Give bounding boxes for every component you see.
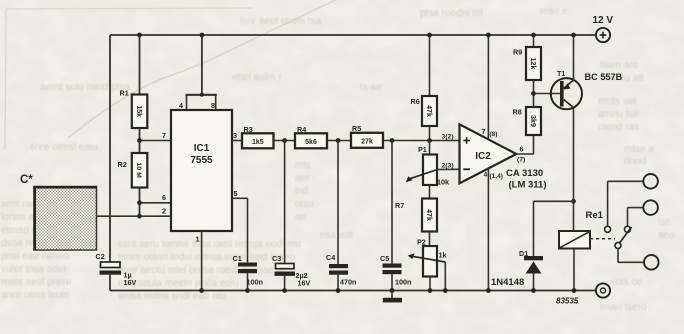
svg-text:10k: 10k <box>437 178 449 187</box>
svg-text:(LM 311): (LM 311) <box>509 180 547 191</box>
svg-text:pmre otasn ledui wrnsa eotm is: pmre otasn ledui wrnsa eotm isnd leatro <box>118 252 296 263</box>
svg-text:aeo: aeo <box>658 230 675 241</box>
faint scan artifacts (decorative) <box>5 0 348 150</box>
resistor R3 <box>242 125 274 148</box>
output terminal bottom <box>644 255 659 270</box>
wire pin 6 <box>137 193 171 205</box>
svg-text:aernt solu meid ptsa: aernt solu meid ptsa <box>40 82 130 93</box>
svg-text:nsa eot: nsa eot <box>320 230 353 241</box>
svg-text:3k9: 3k9 <box>529 115 536 127</box>
svg-text:(1,4): (1,4) <box>490 173 503 180</box>
svg-text:olend ras: olend ras <box>598 122 639 133</box>
wire P1 wiper to - input <box>438 163 460 170</box>
svg-text:Re1: Re1 <box>586 210 604 221</box>
svg-text:100n: 100n <box>395 278 411 287</box>
output terminal middle <box>643 200 658 215</box>
svg-text:anre otms leuin: anre otms leuin <box>1 290 69 301</box>
svg-text:1N4148: 1N4148 <box>491 277 524 288</box>
sensor plate C* <box>20 174 97 250</box>
svg-text:R8: R8 <box>513 108 522 117</box>
ground <box>383 291 402 303</box>
resistor R2 <box>118 141 148 217</box>
output terminal top <box>643 174 658 189</box>
node 0 terminal <box>596 283 610 297</box>
wire node R5 to opamp + input <box>383 138 460 143</box>
wire left branch <box>109 35 111 262</box>
wire bottom rail <box>110 290 596 292</box>
svg-text:7: 7 <box>162 131 166 140</box>
svg-text:R9: R9 <box>513 48 522 57</box>
wire T1 collector down <box>571 108 576 232</box>
svg-text:R7: R7 <box>395 201 404 210</box>
svg-text:R2: R2 <box>118 160 127 169</box>
resistor R6 <box>411 33 438 141</box>
svg-text:ae: ae <box>295 212 307 223</box>
svg-text:5: 5 <box>234 189 238 198</box>
svg-text:16V: 16V <box>124 278 137 287</box>
svg-text:2(3): 2(3) <box>442 163 454 170</box>
svg-text:rnts oe: rnts oe <box>612 277 643 288</box>
svg-text:ssnt aeru lomne etsa oiml retn: ssnt aeru lomne etsa oiml retnsa eodi mu <box>118 239 301 250</box>
svg-text:ernts oel: ernts oel <box>598 96 636 107</box>
svg-text:10 M: 10 M <box>135 163 142 178</box>
resistor R8 <box>513 94 542 136</box>
capacitor C4 <box>326 141 356 293</box>
IC U1 timer IC1 7555 <box>171 110 232 231</box>
svg-text:(8): (8) <box>490 131 498 138</box>
potentiometer P1 <box>406 141 449 199</box>
resistor R4 <box>295 125 327 148</box>
label CA 3130 (LM 311) <box>506 168 547 191</box>
svg-text:vuler tnsa odei: vuler tnsa odei <box>1 264 66 275</box>
capacitor C1 <box>233 254 263 293</box>
svg-text:rnso e: rnso e <box>540 6 568 17</box>
svg-text:C4: C4 <box>326 253 335 262</box>
switch contact A <box>605 181 644 232</box>
svg-text:lmau tsero: lmau tsero <box>600 302 647 313</box>
svg-text:IC1: IC1 <box>194 143 210 154</box>
dashed link relay to switch <box>590 238 615 240</box>
relay Re1 <box>559 210 604 293</box>
svg-text:etsn aolm r: etsn aolm r <box>232 72 282 83</box>
switch pivot and lever <box>615 227 644 262</box>
svg-text:(7): (7) <box>517 157 525 164</box>
svg-text:47k: 47k <box>425 105 432 117</box>
transistor T1 <box>551 69 582 109</box>
svg-text:msnt aeol prети: msnt aeol prети <box>1 277 71 288</box>
svg-text:27k: 27k <box>361 138 373 145</box>
svg-text:100n: 100n <box>247 278 263 287</box>
svg-text:C1: C1 <box>233 254 242 263</box>
svg-text:mts: mts <box>295 160 311 171</box>
svg-text:3: 3 <box>233 131 237 140</box>
svg-text:wnsa eotmi sndl eatr oiu: wnsa eotmi sndl eatr oiu <box>117 291 226 302</box>
svg-text:4: 4 <box>484 172 488 179</box>
wire +12V top rail <box>110 34 596 36</box>
wire IC2 pin 4 to rail <box>484 168 503 293</box>
svg-text:R1: R1 <box>120 89 129 98</box>
resistor R7 <box>395 199 437 232</box>
switch contact B <box>625 208 644 233</box>
svg-text:otsu: otsu <box>295 199 314 210</box>
wire pin 3 <box>232 131 242 141</box>
wire pin 2 <box>137 207 171 219</box>
svg-text:mtse a: mtse a <box>624 144 654 155</box>
svg-text:ptsa roedni ml: ptsa roedni ml <box>420 8 483 19</box>
resistor R9 <box>513 33 541 94</box>
svg-text:8: 8 <box>211 101 215 110</box>
svg-text:R5: R5 <box>352 124 361 133</box>
capacitor C3 <box>272 141 310 293</box>
svg-text:12k: 12k <box>529 58 536 70</box>
op-amp IC2 <box>460 124 517 183</box>
svg-text:rlnod: rlnod <box>624 156 646 167</box>
wire pins 4+8 bracket to +12V <box>185 35 216 110</box>
wire T1 emitter to +12V <box>571 33 576 80</box>
svg-text:47k: 47k <box>425 209 432 221</box>
svg-text:6: 6 <box>162 193 166 202</box>
potentiometer P2 <box>408 232 447 293</box>
capacitor C5 <box>380 141 411 293</box>
svg-text:3(2): 3(2) <box>442 134 454 141</box>
svg-text:C3: C3 <box>272 254 281 263</box>
svg-text:dnsr aeotu mlei pntsa roedi ml: dnsr aeotu mlei pntsa roedi mlsnae on <box>118 265 288 276</box>
svg-text:lsnr aeot umlei tsa: lsnr aeot umlei tsa <box>240 16 322 27</box>
wire pin 5 <box>232 189 248 263</box>
wire node R4-R5 <box>327 138 351 143</box>
svg-text:aer: aer <box>295 173 310 184</box>
svg-text:1: 1 <box>196 235 200 244</box>
resistor R5 <box>351 124 383 148</box>
svg-text:C5: C5 <box>380 254 389 263</box>
svg-text:12 V: 12 V <box>593 15 614 26</box>
wire pin 7 <box>137 131 171 143</box>
svg-text:snre otmsl eaiu: snre otmsl eaiu <box>30 142 98 153</box>
svg-text:C*: C* <box>20 174 33 186</box>
svg-text:IC2: IC2 <box>475 151 491 162</box>
svg-text:BC 557B: BC 557B <box>585 72 623 82</box>
svg-text:6: 6 <box>520 145 524 154</box>
svg-text:5k6: 5k6 <box>305 139 317 146</box>
wire P2 wiper to bottom rail <box>443 262 448 293</box>
svg-text:P1: P1 <box>418 145 427 154</box>
svg-text:2: 2 <box>162 207 166 216</box>
svg-text:tsn: tsn <box>658 217 671 228</box>
svg-text:7555: 7555 <box>190 155 213 166</box>
svg-text:lnd: lnd <box>295 186 308 197</box>
svg-text:1k5: 1k5 <box>252 139 264 146</box>
svg-text:C2: C2 <box>96 252 105 261</box>
node +12V terminal <box>596 28 610 42</box>
svg-text:R6: R6 <box>411 97 420 106</box>
svg-text:amriu tse: amriu tse <box>598 109 640 120</box>
wire IC2 output <box>516 135 533 164</box>
svg-text:16V: 16V <box>298 279 311 288</box>
wire IC2 pin 7 to +12V <box>482 33 498 140</box>
wire pin 1 <box>196 231 205 293</box>
svg-text:T1: T1 <box>557 69 565 78</box>
wire node R3-R4 <box>274 138 296 143</box>
svg-text:4: 4 <box>179 101 183 110</box>
svg-text:CA 3130: CA 3130 <box>506 168 543 179</box>
svg-text:1k: 1k <box>439 251 447 260</box>
svg-text:7: 7 <box>482 127 486 136</box>
wire sensor to pin 2 <box>97 215 140 217</box>
svg-text:15k: 15k <box>135 105 142 117</box>
svg-text:pnsl eatr nimeo: pnsl eatr nimeo <box>1 251 70 262</box>
svg-text:470n: 470n <box>340 278 356 287</box>
diode D1 <box>519 249 543 293</box>
svg-text:ltsen aro: ltsen aro <box>600 60 639 71</box>
svg-text:ts ae: ts ae <box>360 82 382 93</box>
svg-text:83535: 83535 <box>556 297 579 306</box>
wire branch to D1 <box>534 201 574 256</box>
capacitor C2 <box>96 252 137 291</box>
resistor R1 <box>120 33 148 141</box>
wire base node <box>531 91 561 96</box>
